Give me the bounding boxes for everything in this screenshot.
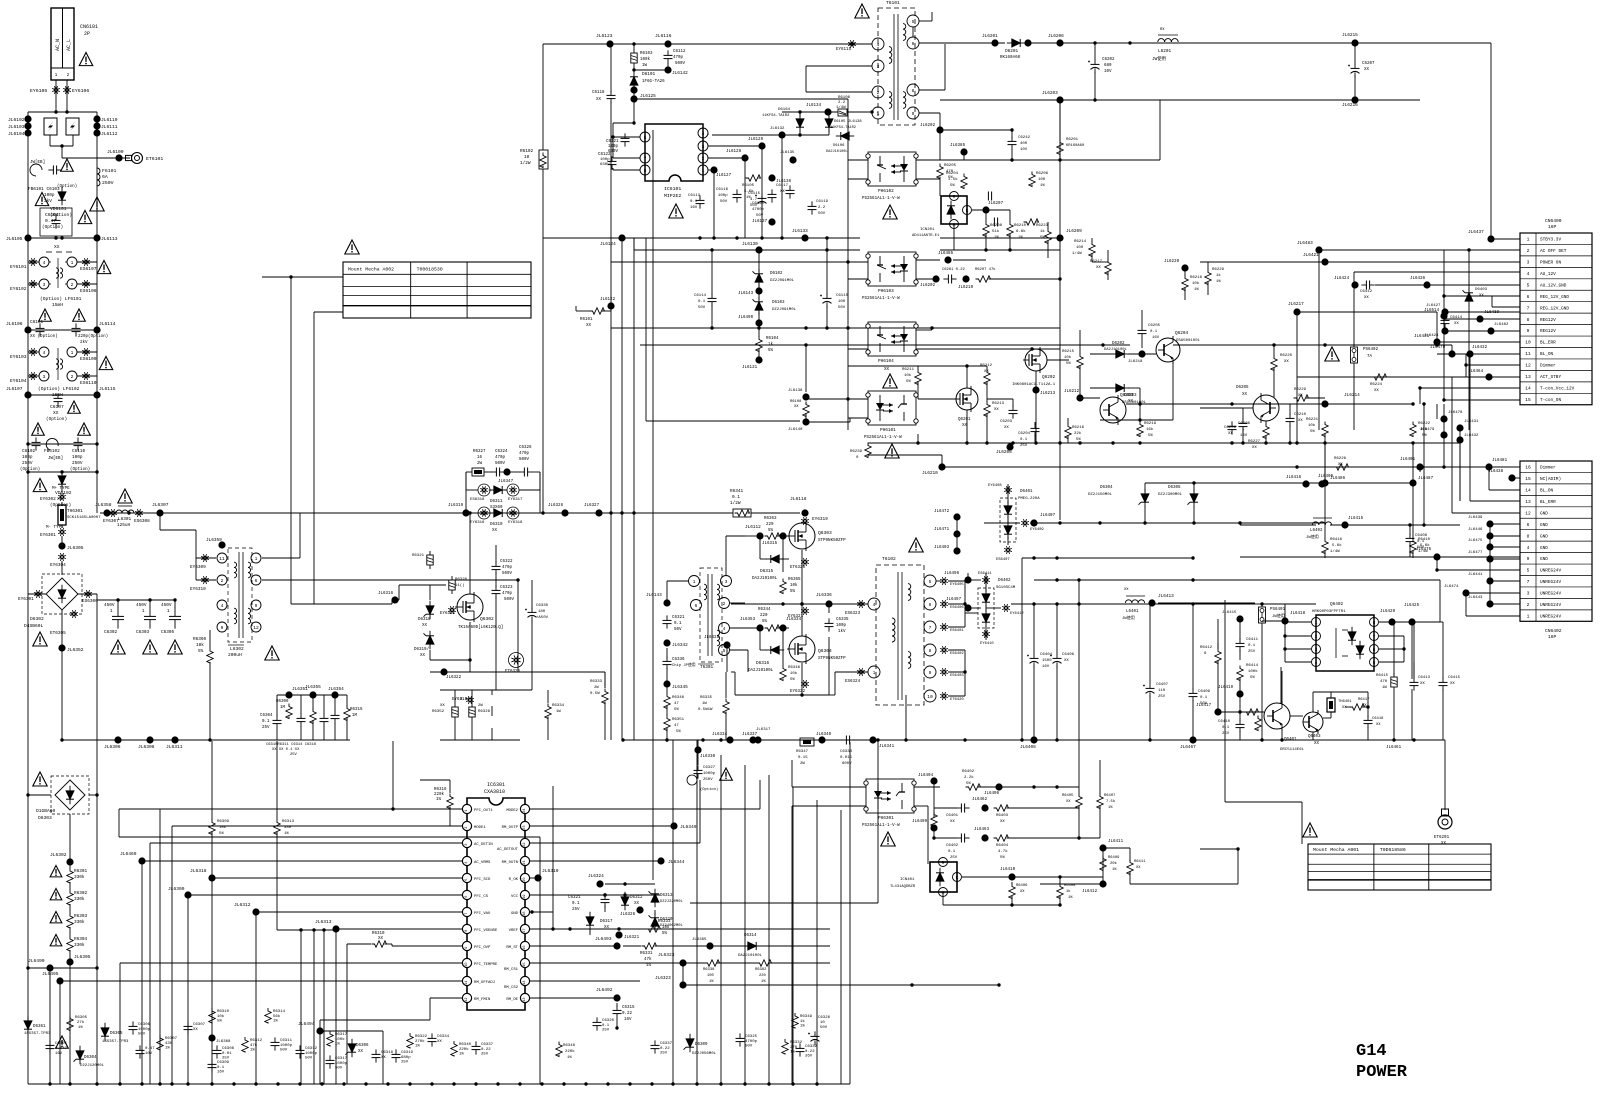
warning triangle ph6301 bbox=[881, 832, 895, 846]
svg-text:Q6202: Q6202 bbox=[1042, 375, 1056, 380]
wire cluster rail bbox=[277, 694, 347, 696]
node JL6207 R6201 bbox=[1057, 140, 1063, 155]
svg-text:C6315: C6315 bbox=[622, 1006, 635, 1010]
bead EY6301 left bbox=[39, 594, 42, 595]
svg-text:C6306: C6306 bbox=[138, 1023, 151, 1027]
svg-text:R6210: R6210 bbox=[1014, 224, 1027, 228]
svg-text:25V: 25V bbox=[950, 856, 958, 860]
svg-text:1M: 1M bbox=[280, 706, 286, 710]
wire y=330 mid bbox=[611, 327, 1060, 329]
svg-text:100: 100 bbox=[707, 974, 715, 978]
svg-text:C6337: C6337 bbox=[660, 1042, 673, 1046]
wire pin1 corner x=119 bbox=[118, 809, 120, 837]
svg-text:0.1: 0.1 bbox=[698, 300, 706, 304]
node JL6214 bbox=[1321, 400, 1328, 407]
svg-text:0.047: 0.047 bbox=[55, 1047, 68, 1051]
svg-text:XX: XX bbox=[884, 368, 890, 372]
node JL6134 bbox=[824, 108, 831, 115]
wire CXA left pin staircase bbox=[119, 808, 462, 810]
svg-text:INK0801AC1-T112A-1: INK0801AC1-T112A-1 bbox=[1012, 383, 1056, 387]
node JL6412 bbox=[1099, 880, 1106, 887]
wire y=345 from left bbox=[1173, 344, 1437, 346]
svg-text:50V: 50V bbox=[745, 1045, 753, 1049]
resistor R6322 270k bbox=[407, 1033, 413, 1048]
svg-text:47k: 47k bbox=[644, 957, 652, 962]
svg-text:JL6409: JL6409 bbox=[912, 820, 928, 824]
resistor R6102 10 1/2W bbox=[539, 150, 548, 169]
svg-text:C6413: C6413 bbox=[1418, 676, 1431, 680]
svg-text:9: 9 bbox=[1527, 328, 1530, 334]
svg-text:D6318: D6318 bbox=[418, 618, 431, 622]
warning triangle ph6104 bbox=[883, 374, 897, 388]
node JL6497 bbox=[964, 604, 971, 611]
svg-text:Q6302: Q6302 bbox=[480, 616, 494, 622]
svg-text:1500: 1500 bbox=[1042, 659, 1052, 663]
transistor Q6203 DSC500100L bbox=[1100, 397, 1126, 423]
svg-text:AU_12V_GND: AU_12V_GND bbox=[1540, 283, 1567, 288]
svg-text:HRK90P03FPFTR1: HRK90P03FPFTR1 bbox=[1312, 610, 1346, 614]
svg-text:250V: 250V bbox=[72, 461, 83, 466]
node JL6344 bbox=[530, 860, 660, 862]
svg-text:JL6461: JL6461 bbox=[1386, 746, 1402, 750]
capacitor C6337b bbox=[654, 1040, 656, 1045]
wire ic6101 left pins bbox=[613, 136, 640, 138]
wire d6102 net bbox=[758, 250, 760, 272]
svg-text:EY6301: EY6301 bbox=[18, 597, 34, 602]
svg-text:XX: XX bbox=[440, 704, 445, 708]
svg-text:5%: 5% bbox=[768, 349, 774, 353]
capacitor C6333 0.015 600V bbox=[841, 739, 846, 741]
svg-text:R6201: R6201 bbox=[1066, 138, 1079, 142]
warning triangle VD6101 bbox=[35, 193, 49, 206]
svg-text:F6101: F6101 bbox=[102, 168, 117, 174]
svg-text:100k: 100k bbox=[335, 1037, 345, 1042]
svg-text:7: 7 bbox=[465, 913, 469, 915]
bead EY6310 bbox=[206, 580, 209, 581]
wire y=968 bbox=[28, 967, 97, 969]
svg-text:C6414: C6414 bbox=[1450, 316, 1463, 320]
svg-text:0.1: 0.1 bbox=[732, 495, 740, 500]
wire vertical x=1444 bbox=[1443, 250, 1445, 400]
svg-text:R6304: R6304 bbox=[74, 937, 88, 942]
svg-text:R6224: R6224 bbox=[1370, 383, 1383, 387]
svg-text:AC_N: AC_N bbox=[55, 39, 61, 51]
wire right drop x=1491 bbox=[1490, 43, 1492, 239]
svg-text:PS2561AL1-1-V-W: PS2561AL1-1-V-W bbox=[862, 297, 900, 301]
svg-text:ET6305: ET6305 bbox=[50, 631, 66, 636]
diode D6203 XX bbox=[1116, 384, 1124, 392]
wire top rail y=44 bbox=[543, 43, 872, 45]
node JL6326b bbox=[636, 906, 643, 913]
svg-text:6: 6 bbox=[255, 578, 258, 584]
wire y=366 rail bbox=[848, 365, 987, 367]
svg-text:15: 15 bbox=[1525, 397, 1531, 403]
node JL6495 bbox=[56, 977, 63, 984]
fuse PS6402 7A bbox=[1351, 347, 1358, 363]
svg-text:XX: XX bbox=[1364, 68, 1370, 72]
svg-text:R6223: R6223 bbox=[1036, 224, 1049, 228]
wire cs1 right bbox=[683, 984, 1000, 986]
svg-text:50V: 50V bbox=[280, 1049, 288, 1053]
svg-text:DA2J10100L: DA2J10100L bbox=[748, 669, 774, 673]
node JL6107 bbox=[24, 391, 31, 398]
svg-text:D6313: D6313 bbox=[660, 894, 673, 898]
svg-text:D6105: D6105 bbox=[834, 120, 846, 124]
svg-text:XX: XX bbox=[1454, 322, 1459, 326]
wire q6401 emitter bbox=[1281, 729, 1283, 740]
svg-text:ES6402: ES6402 bbox=[950, 652, 964, 656]
svg-text:10V: 10V bbox=[1020, 148, 1028, 152]
svg-text:STP9NK50ZFP: STP9NK50ZFP bbox=[818, 657, 846, 661]
svg-text:REG12V: REG12V bbox=[1540, 329, 1556, 334]
svg-text:JL6202: JL6202 bbox=[920, 284, 936, 288]
svg-text:1%: 1% bbox=[567, 1056, 572, 1060]
svg-text:400: 400 bbox=[1020, 142, 1028, 146]
node JL6486 JL6487 bbox=[1321, 479, 1328, 486]
wire bridge minus down bbox=[61, 610, 63, 648]
svg-text:10k: 10k bbox=[1192, 281, 1200, 286]
svg-text:JL6138: JL6138 bbox=[788, 389, 803, 393]
svg-text:JL6305: JL6305 bbox=[67, 545, 84, 551]
wire VCC pin19 bbox=[530, 894, 660, 896]
node JL6143b bbox=[755, 287, 762, 294]
svg-text:ET6101: ET6101 bbox=[146, 156, 163, 162]
svg-text:XX: XX bbox=[437, 1040, 442, 1044]
svg-text:1M: 1M bbox=[352, 714, 358, 718]
capacitor C6115b 100 50V bbox=[826, 293, 828, 298]
svg-text:JL6210: JL6210 bbox=[958, 286, 974, 290]
wire mecha link bbox=[262, 276, 343, 278]
node JL6328 bbox=[723, 641, 730, 648]
svg-text:L6402: L6402 bbox=[1310, 529, 1323, 533]
svg-text:ES6324: ES6324 bbox=[845, 680, 861, 684]
svg-text:JL6441: JL6441 bbox=[1468, 573, 1483, 577]
wire y=250 secondary gnd bbox=[940, 249, 1060, 251]
svg-text:XX: XX bbox=[54, 244, 60, 250]
svg-text:(Option): (Option) bbox=[700, 787, 718, 792]
capacitor C6408 0.1 50V bbox=[1409, 533, 1411, 538]
svg-text:JL6206: JL6206 bbox=[1048, 34, 1064, 39]
node JL6215 bbox=[1351, 39, 1358, 46]
svg-text:470: 470 bbox=[1380, 680, 1388, 684]
svg-text:1/2W: 1/2W bbox=[520, 161, 531, 166]
resistor D6317b 100k bbox=[327, 1031, 333, 1046]
capacitor C6117 bbox=[789, 185, 791, 190]
node JL6207b bbox=[982, 206, 989, 213]
svg-text:R6322: R6322 bbox=[415, 1035, 428, 1039]
node JL6115 bbox=[93, 391, 100, 398]
svg-text:0.5W: 0.5W bbox=[590, 692, 600, 696]
svg-text:JL6313: JL6313 bbox=[315, 919, 332, 925]
wire verticals from y=930 bbox=[300, 930, 302, 1084]
svg-text:1W: 1W bbox=[556, 710, 561, 714]
diode D6312 XX bbox=[621, 897, 629, 905]
wire q6402 left pins bbox=[1285, 621, 1311, 623]
inductor L6201 bbox=[1158, 39, 1165, 42]
mosfet Q6302 TK15A60D bbox=[457, 594, 483, 620]
svg-text:JL6355: JL6355 bbox=[305, 685, 321, 690]
svg-text:L6302: L6302 bbox=[230, 646, 244, 652]
svg-text:XX: XX bbox=[1338, 463, 1343, 467]
svg-text:DZ2J056M0L: DZ2J056M0L bbox=[692, 1052, 717, 1056]
svg-text:D1GBA60: D1GBA60 bbox=[36, 808, 56, 814]
wire x=62 from bridge bbox=[61, 700, 63, 740]
wire q6202 wiring bbox=[1035, 371, 1037, 443]
svg-text:XX: XX bbox=[381, 1056, 386, 1060]
svg-text:JL6439: JL6439 bbox=[1468, 516, 1483, 520]
shunt regulator ICN401 TL431AQDBZR bbox=[930, 862, 957, 892]
resistor R6405 R6407 divider bbox=[1076, 794, 1082, 809]
capacitor C6206 1 16V bbox=[1231, 421, 1233, 426]
svg-text:JL6143: JL6143 bbox=[646, 593, 662, 598]
node JL6418 bbox=[1281, 617, 1288, 624]
node JL6143 bbox=[663, 599, 670, 606]
capacitor C6308 bbox=[216, 1045, 218, 1050]
svg-text:12: 12 bbox=[465, 997, 469, 1001]
wire CN6101 pin2 down bbox=[66, 80, 68, 112]
svg-text:AC_DETOUT: AC_DETOUT bbox=[497, 848, 519, 852]
diode D6101 1F6G-TA26 bbox=[630, 77, 638, 85]
svg-text:1k: 1k bbox=[1040, 229, 1045, 234]
svg-text:C6321: C6321 bbox=[672, 616, 685, 620]
svg-text:1%: 1% bbox=[436, 798, 442, 802]
svg-text:JL6359: JL6359 bbox=[206, 538, 222, 543]
wire ph6104 rows bbox=[916, 329, 932, 331]
svg-text:500V: 500V bbox=[675, 62, 686, 66]
svg-text:1%: 1% bbox=[415, 1045, 420, 1049]
svg-text:XX: XX bbox=[984, 370, 989, 374]
node JL6341 bbox=[869, 736, 876, 743]
svg-text:JL6341: JL6341 bbox=[879, 745, 895, 749]
node JL6305b bbox=[66, 958, 73, 965]
svg-text:JL6220: JL6220 bbox=[1164, 260, 1180, 264]
wire y=444 row bbox=[28, 443, 97, 445]
warning triangle b bbox=[73, 309, 86, 321]
svg-text:1/4W: 1/4W bbox=[836, 105, 846, 110]
svg-text:10: 10 bbox=[820, 1021, 825, 1025]
svg-text:3: 3 bbox=[1527, 260, 1530, 266]
resistor R6335 1W 0.5W bbox=[723, 699, 729, 714]
capacitor C6407 110 25V bbox=[1149, 683, 1151, 688]
svg-text:1k: 1k bbox=[1066, 889, 1071, 894]
diode D6318 XX bbox=[426, 606, 434, 614]
svg-text:XX: XX bbox=[1376, 723, 1381, 727]
svg-text:R6310: R6310 bbox=[372, 932, 385, 936]
wire x=50 down bbox=[49, 968, 51, 1084]
wire y=420 stub bbox=[1436, 404, 1438, 419]
mosfet source resistors R6352 R6326 bbox=[452, 707, 458, 717]
svg-text:0.47: 0.47 bbox=[145, 1047, 155, 1051]
wire Q6302 gate wiring bbox=[418, 584, 446, 586]
svg-text:EY6309: EY6309 bbox=[190, 565, 206, 570]
capacitor C6411 0.1 25V bbox=[1239, 638, 1241, 643]
svg-text:3: 3 bbox=[1527, 591, 1530, 597]
svg-text:PFC_OUT1: PFC_OUT1 bbox=[474, 809, 493, 813]
node JL6405 R6401 bbox=[930, 824, 937, 831]
capacitor C6109 bbox=[75, 323, 77, 328]
wire CN6101 pin1 down bbox=[55, 80, 57, 112]
diode D6403 XX zener bbox=[1465, 293, 1473, 301]
wire JL6411 JL6412 area bbox=[1099, 844, 1106, 851]
svg-text:XX: XX bbox=[1298, 394, 1303, 398]
svg-text:Q6303: Q6303 bbox=[818, 530, 832, 536]
svg-text:GND: GND bbox=[1540, 534, 1548, 539]
svg-text:C6317: C6317 bbox=[335, 1057, 348, 1061]
svg-text:50V: 50V bbox=[138, 1033, 146, 1037]
svg-text:EY6405: EY6405 bbox=[950, 583, 964, 587]
svg-text:2: 2 bbox=[723, 601, 726, 607]
wire vref right bbox=[700, 928, 830, 930]
resistor R6219 16k bbox=[1137, 422, 1143, 437]
svg-text:D6314: D6314 bbox=[744, 934, 757, 938]
node JL6305 bbox=[58, 542, 65, 549]
svg-text:PH6103: PH6103 bbox=[878, 289, 894, 294]
svg-text:1%: 1% bbox=[78, 1026, 83, 1030]
svg-text:EY6304: EY6304 bbox=[50, 563, 66, 568]
svg-text:11: 11 bbox=[465, 980, 469, 984]
svg-text:16V: 16V bbox=[1042, 665, 1050, 669]
resistor R6215 10k 5% bbox=[1077, 354, 1083, 369]
node JL6209 bbox=[1056, 234, 1063, 241]
svg-text:8: 8 bbox=[929, 648, 932, 654]
svg-text:D6309: D6309 bbox=[695, 1043, 708, 1047]
node JL6201 bbox=[991, 39, 998, 46]
resistor R6316 220k bbox=[447, 794, 453, 809]
svg-text:23: 23 bbox=[523, 825, 527, 829]
diode D6305 DZ2J300M0L zener bbox=[1190, 494, 1198, 502]
svg-text:PS6402: PS6402 bbox=[1363, 348, 1379, 352]
svg-text:XX: XX bbox=[1020, 890, 1025, 894]
capacitor C6410 0.1 25V bbox=[1239, 719, 1241, 724]
node JL6483 row2 bbox=[1315, 246, 1322, 253]
node JL6401 bbox=[1416, 463, 1423, 470]
svg-text:1: 1 bbox=[702, 168, 705, 174]
svg-text:FB6101 C6103: FB6101 C6103 bbox=[28, 187, 60, 192]
svg-text:C6402: C6402 bbox=[946, 844, 959, 848]
resistor R6310b XX bbox=[372, 941, 387, 947]
svg-text:XX: XX bbox=[358, 1050, 364, 1054]
wire rail y=740 bbox=[850, 739, 1445, 741]
svg-text:D6317: D6317 bbox=[600, 920, 613, 924]
table Mount Mecha A002 bbox=[343, 262, 531, 318]
svg-text:1%: 1% bbox=[273, 1020, 278, 1024]
svg-text:DZ2J300M0L: DZ2J300M0L bbox=[1158, 493, 1183, 497]
svg-text:330: 330 bbox=[284, 826, 292, 830]
node JL6349 bbox=[530, 825, 672, 827]
svg-text:AD411ANTR-E1: AD411ANTR-E1 bbox=[912, 234, 940, 238]
svg-text:EY6310: EY6310 bbox=[190, 587, 206, 592]
svg-text:5%: 5% bbox=[662, 932, 668, 936]
wire y=455 r6239 bbox=[868, 454, 942, 456]
svg-text:0.1: 0.1 bbox=[1020, 438, 1028, 442]
node JL6131 bbox=[755, 356, 762, 363]
svg-text:JL6411: JL6411 bbox=[1108, 840, 1124, 844]
svg-text:20: 20 bbox=[523, 877, 527, 881]
capacitor C6325 bbox=[739, 1033, 741, 1038]
svg-text:220: 220 bbox=[766, 523, 774, 527]
wire x=543 drop bbox=[542, 44, 544, 150]
svg-text:EY6104: EY6104 bbox=[10, 378, 27, 384]
bead FB6101 cap C6103 bbox=[30, 164, 42, 176]
diode D6314 DA2J10100L bbox=[748, 942, 756, 950]
wire T6302 pin4 left bbox=[855, 603, 868, 605]
wire gate net Q6304 bbox=[745, 627, 759, 629]
node JL6309 bbox=[184, 891, 191, 898]
wire y=884 long bbox=[1040, 883, 1103, 885]
svg-text:17: 17 bbox=[523, 928, 527, 932]
resistor R6204 row bbox=[961, 174, 967, 189]
line filter LF6101 bbox=[39, 257, 49, 267]
svg-text:470p: 470p bbox=[502, 566, 513, 570]
node JL6472 JL6471 JL6403 bbox=[953, 513, 960, 520]
svg-text:R6106: R6106 bbox=[838, 96, 851, 100]
warning triangle under fuse bbox=[90, 197, 104, 211]
wire vertical x=1420 bbox=[1419, 388, 1421, 404]
resistor R6103 100k 1W bbox=[631, 53, 637, 63]
warning triangle C6107 bbox=[68, 401, 81, 413]
svg-text:JL6127: JL6127 bbox=[716, 174, 732, 178]
svg-text:DA2J10100L: DA2J10100L bbox=[738, 954, 763, 958]
svg-text:6: 6 bbox=[1373, 647, 1376, 653]
svg-text:XX: XX bbox=[1066, 800, 1071, 804]
resistor R6410 5.6k 1/4W bbox=[1410, 539, 1416, 554]
node JL6311 bbox=[171, 736, 178, 743]
svg-text:1: 1 bbox=[71, 350, 74, 356]
svg-text:R6220: R6220 bbox=[1280, 354, 1293, 358]
svg-text:JL6419: JL6419 bbox=[1218, 686, 1234, 690]
svg-text:GND: GND bbox=[1540, 511, 1548, 516]
svg-text:JL6107: JL6107 bbox=[6, 386, 23, 392]
svg-text:JL6431: JL6431 bbox=[1464, 420, 1479, 424]
svg-text:JL6406: JL6406 bbox=[984, 792, 1000, 796]
svg-text:C6115: C6115 bbox=[836, 294, 849, 298]
resistor R6229 1k 1% bbox=[1205, 270, 1211, 285]
capacitor C6119 bbox=[811, 201, 813, 206]
warning triangle C6103 bbox=[61, 159, 74, 171]
svg-text:C6330: C6330 bbox=[536, 604, 549, 608]
svg-text:1%: 1% bbox=[790, 1051, 795, 1055]
svg-text:JL6345: JL6345 bbox=[672, 685, 688, 690]
svg-text:EY6105: EY6105 bbox=[30, 88, 47, 94]
svg-text:1/4W: 1/4W bbox=[1072, 251, 1082, 256]
wire pin1 left bbox=[159, 809, 161, 1084]
bead EY6320 bbox=[806, 562, 809, 563]
svg-text:JL6323: JL6323 bbox=[655, 976, 671, 981]
wire to bridge bbox=[61, 561, 63, 575]
diode D6304 zener bbox=[76, 1051, 84, 1059]
capacitor C6312 bbox=[299, 1045, 301, 1050]
node JL6308 bbox=[146, 736, 153, 743]
svg-text:5%: 5% bbox=[1076, 438, 1081, 442]
svg-text:2: 2 bbox=[465, 827, 469, 829]
wire down to ET6201 bbox=[1444, 740, 1446, 810]
resistor R6414 100k 5% bbox=[1237, 666, 1243, 681]
wire y=330 row bbox=[28, 329, 97, 331]
warning triangle r1 bbox=[50, 866, 62, 877]
wire VREF pin17 bbox=[530, 928, 700, 930]
wire T6301 secondary bbox=[730, 602, 745, 604]
svg-text:5: 5 bbox=[912, 19, 915, 25]
svg-text:13: 13 bbox=[1525, 499, 1531, 505]
node JL6355 bbox=[309, 691, 316, 698]
svg-text:C6202: C6202 bbox=[1102, 58, 1115, 62]
mosfet Q6202 INK0801AC1 bbox=[1025, 349, 1047, 371]
svg-text:UNREG24V: UNREG24V bbox=[1540, 592, 1561, 597]
svg-text:0.22: 0.22 bbox=[622, 1012, 633, 1016]
svg-text:5%: 5% bbox=[1250, 676, 1255, 680]
node JL6420 JL6425 bbox=[1388, 618, 1395, 625]
svg-text:C6206: C6206 bbox=[1238, 422, 1251, 426]
